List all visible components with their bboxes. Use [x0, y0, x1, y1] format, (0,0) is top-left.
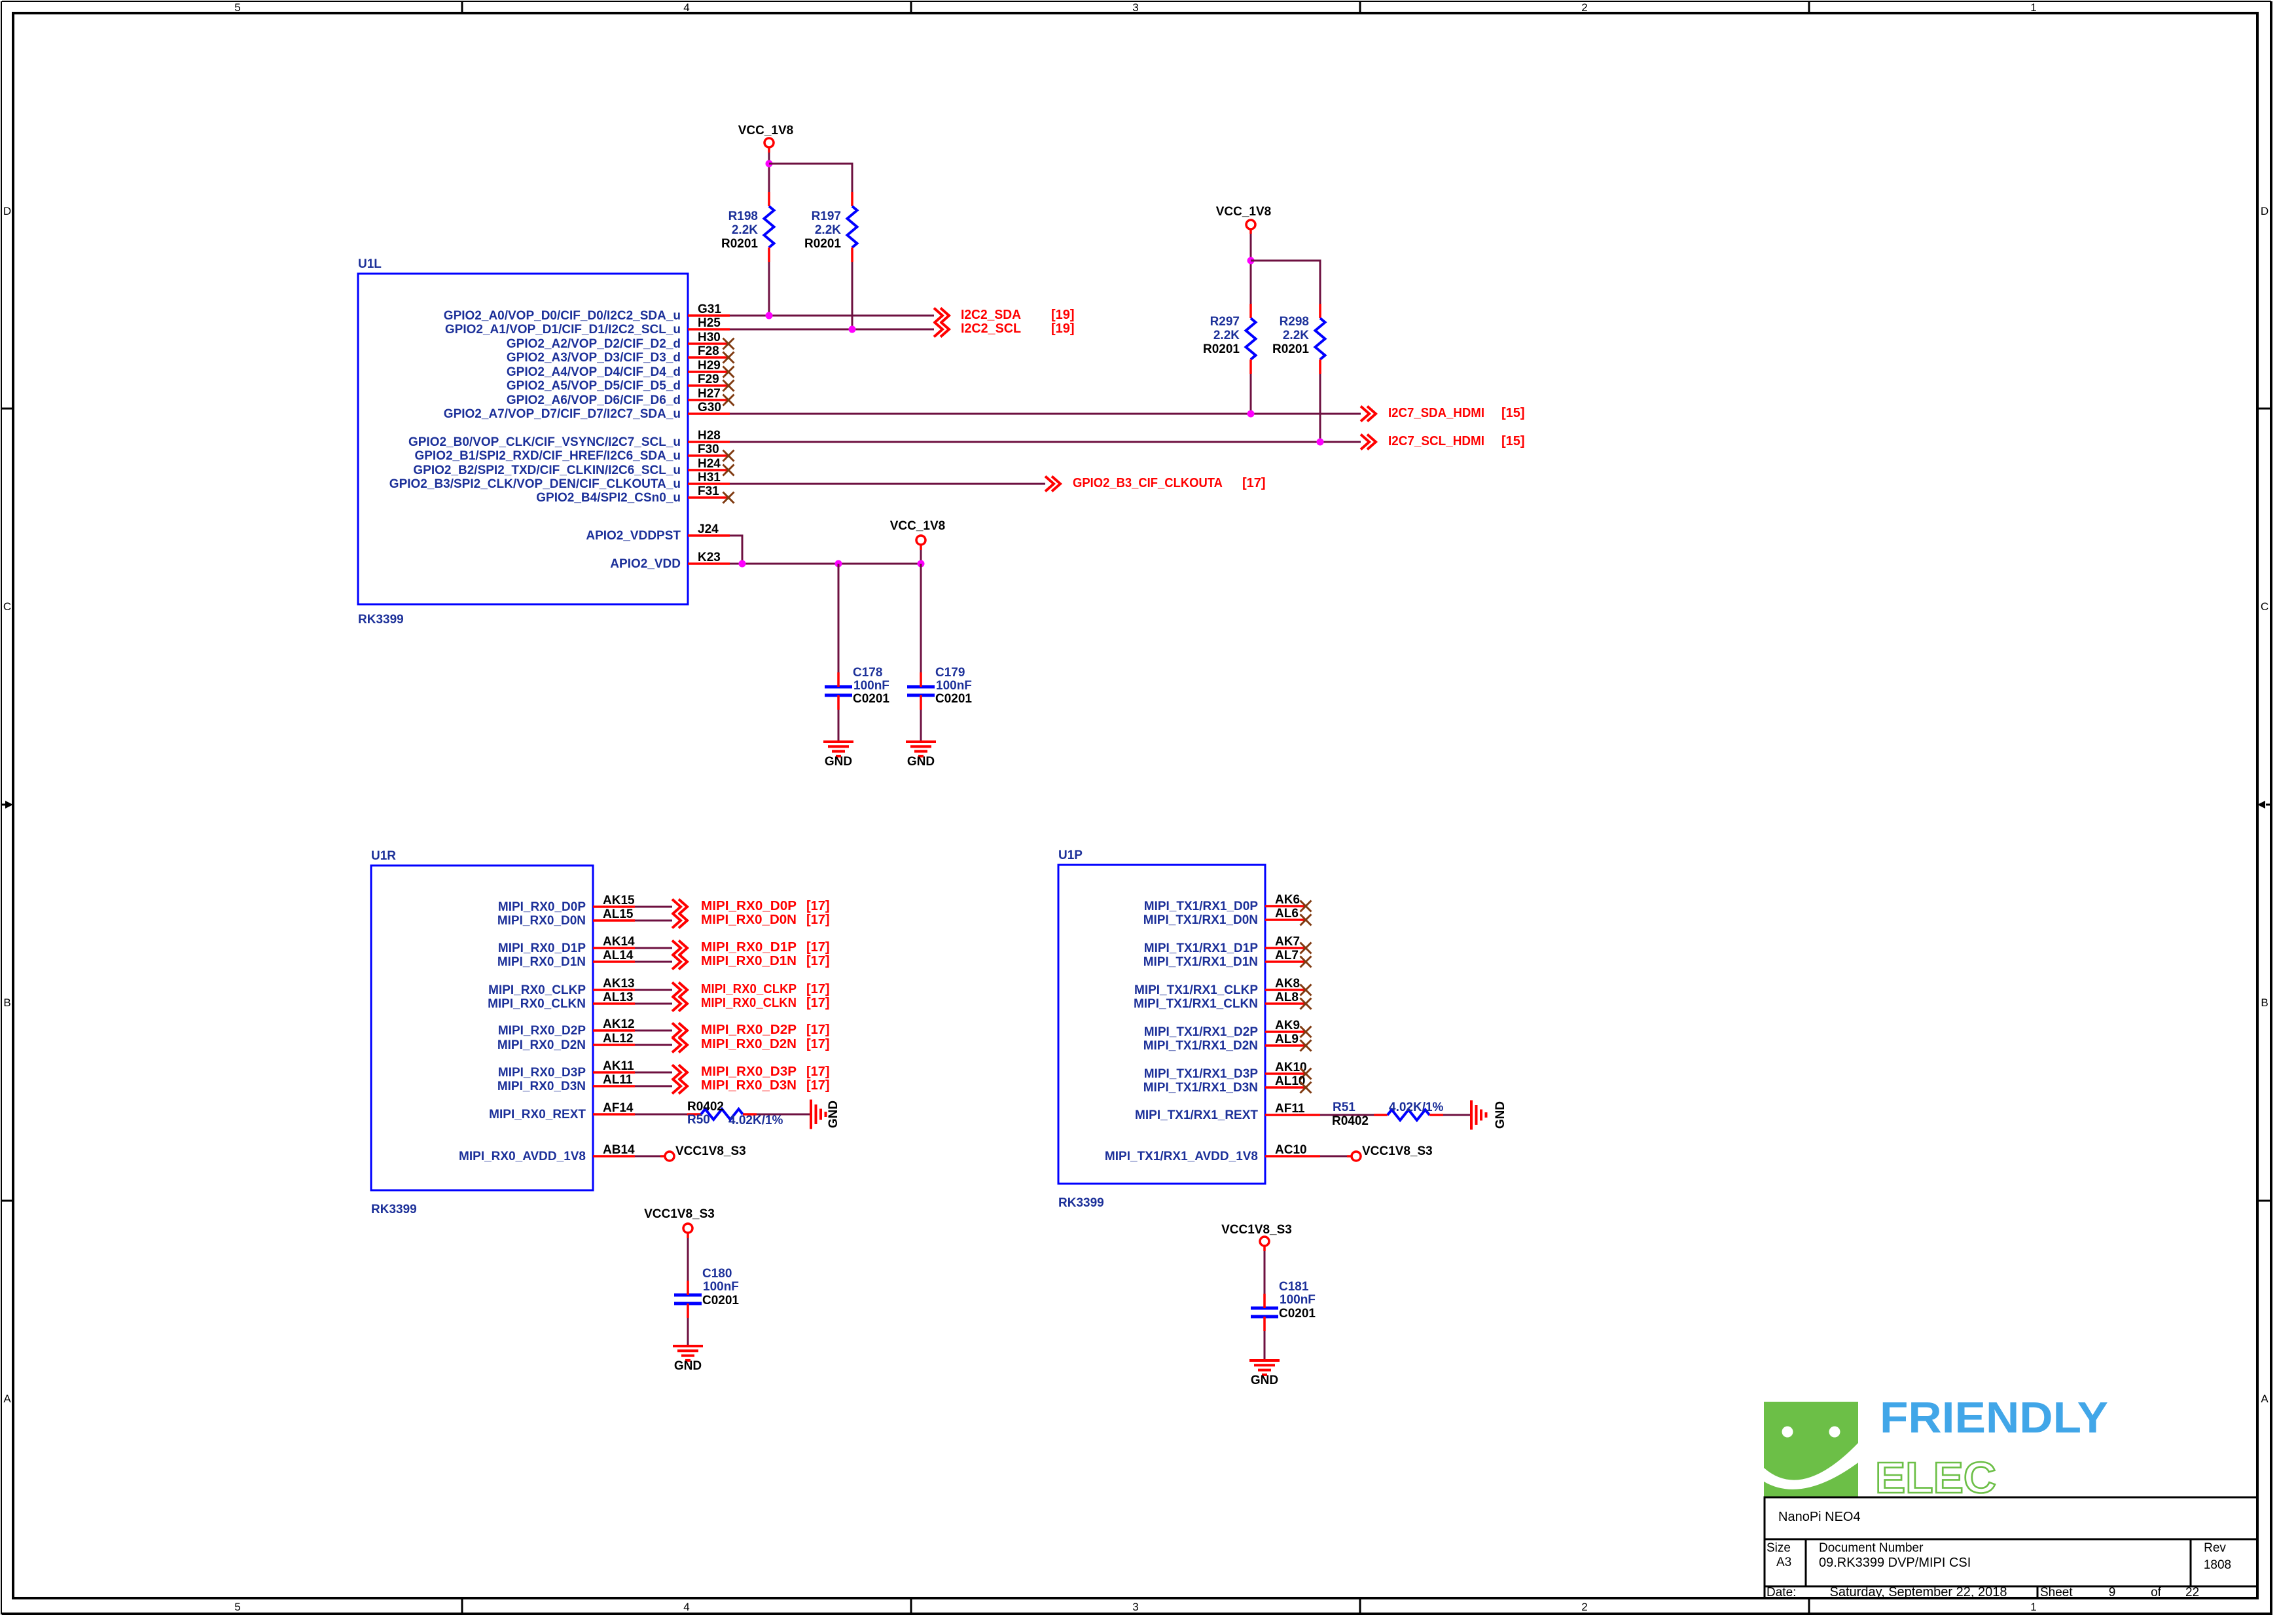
wire MIPI_RX0_D1P — [635, 947, 672, 949]
svg-text:GPIO2_B3/SPI2_CLK/VOP_DEN/CIF_: GPIO2_B3/SPI2_CLK/VOP_DEN/CIF_CLKOUTA_u — [389, 477, 681, 491]
svg-text:B: B — [3, 996, 10, 1009]
svg-text:J24: J24 — [698, 522, 719, 536]
svg-text:MIPI_RX0_D0N: MIPI_RX0_D0N — [497, 914, 586, 928]
svg-text:MIPI_TX1/RX1_CLKP: MIPI_TX1/RX1_CLKP — [1134, 983, 1258, 997]
svg-text:A3: A3 — [1776, 1556, 1791, 1569]
svg-text:ELEC: ELEC — [1875, 1453, 1996, 1503]
off-page connector MIPI_RX0_D3N [17] — [672, 1078, 830, 1094]
svg-text:R0402: R0402 — [1332, 1114, 1369, 1128]
pin H31 GPIO2_B3/SPI2_CLK/VOP_DEN/CIF_CLKOUTA_u — [389, 471, 730, 491]
off-page connector MIPI_RX0_D0N [17] — [672, 913, 830, 928]
pin H25 GPIO2_A1/VOP_D1/CIF_D1/I2C2_SCL_u — [445, 316, 730, 337]
wire R297 to I2C7_SDA — [1250, 374, 1252, 414]
svg-text:GND: GND — [674, 1359, 702, 1373]
pin AK14 MIPI_RX0_D1P — [498, 935, 635, 955]
wire I2C7_SDA — [730, 413, 1361, 415]
off-page connector I2C2_SCL [19] — [934, 321, 1075, 337]
off-page connector MIPI_RX0_D1N [17] — [672, 954, 830, 970]
logo text ELEC — [1875, 1453, 1996, 1503]
wire C181 to GND — [1264, 1331, 1266, 1359]
svg-text:5: 5 — [234, 1601, 240, 1613]
svg-text:C0201: C0201 — [853, 692, 889, 706]
title Date row — [1767, 1585, 2199, 1599]
svg-text:2.2K: 2.2K — [1213, 329, 1240, 342]
ground at R51 — [1471, 1101, 1507, 1130]
pin AK6 MIPI_TX1/RX1_D0P — [1144, 893, 1312, 913]
svg-text:2.2K: 2.2K — [732, 223, 758, 237]
svg-text:R0201: R0201 — [804, 237, 841, 251]
svg-text:GPIO2_A3/VOP_D3/CIF_D3_d: GPIO2_A3/VOP_D3/CIF_D3_d — [507, 351, 681, 365]
svg-text:2: 2 — [1581, 1601, 1587, 1613]
wire VCC1V8_S3 to C180 — [687, 1238, 689, 1281]
zone letters right — [2261, 205, 2269, 1405]
pin AL6 MIPI_TX1/RX1_D0N — [1143, 907, 1312, 927]
IC U1P RK3399 MIPI_TX1/RX1 bank — [1058, 848, 1265, 1210]
junction APIO2_VDD / VDDPST — [739, 560, 746, 568]
ground under C180 — [673, 1346, 703, 1373]
IC U1L RK3399 GPIO2 bank — [358, 257, 688, 627]
pin AL12 MIPI_RX0_D2N — [497, 1032, 635, 1052]
pin AC10 MIPI_TX1/RX1_AVDD_1V8 — [1105, 1143, 1320, 1163]
svg-text:R197: R197 — [812, 210, 841, 223]
svg-text:4.02K/1%: 4.02K/1% — [1389, 1101, 1444, 1114]
svg-text:GPIO2_B0/VOP_CLK/CIF_VSYNC/I2C: GPIO2_B0/VOP_CLK/CIF_VSYNC/I2C7_SCL_u — [408, 435, 681, 449]
svg-text:Sheet: Sheet — [2040, 1586, 2073, 1599]
pin F28 GPIO2_A3/VOP_D3/CIF_D3_d — [507, 344, 734, 365]
off-page connector MIPI_RX0_D1P [17] — [672, 940, 830, 956]
resistor R198 2.2K R0201 — [721, 192, 774, 262]
svg-text:H28: H28 — [698, 429, 721, 443]
svg-text:VCC_1V8: VCC_1V8 — [738, 124, 794, 137]
svg-text:C178: C178 — [853, 666, 882, 680]
svg-text:1808: 1808 — [2204, 1558, 2231, 1572]
svg-text:MIPI_TX1/RX1_D0P: MIPI_TX1/RX1_D0P — [1144, 900, 1259, 913]
svg-text:F30: F30 — [698, 443, 719, 456]
title block grid — [1765, 1497, 2257, 1598]
pin AL11 MIPI_RX0_D3N — [497, 1073, 635, 1093]
svg-text:[15]: [15] — [1501, 434, 1525, 448]
svg-text:GND: GND — [827, 1101, 840, 1128]
svg-text:F28: F28 — [698, 344, 719, 358]
svg-text:Date:: Date: — [1767, 1586, 1796, 1599]
svg-text:100nF: 100nF — [1280, 1293, 1316, 1307]
svg-text:VCC1V8_S3: VCC1V8_S3 — [1362, 1144, 1433, 1158]
svg-text:MIPI_TX1/RX1_CLKN: MIPI_TX1/RX1_CLKN — [1134, 997, 1258, 1011]
svg-text:AF11: AF11 — [1275, 1102, 1305, 1116]
svg-text:D: D — [3, 205, 11, 217]
svg-text:GND: GND — [907, 755, 935, 769]
svg-text:U1P: U1P — [1058, 848, 1083, 862]
svg-text:GPIO2_A1/VOP_D1/CIF_D1/I2C2_SC: GPIO2_A1/VOP_D1/CIF_D1/I2C2_SCL_u — [445, 323, 681, 337]
title Size A3 — [1767, 1541, 1791, 1569]
wire GPIO2_B3_CIF_CLKOUTA — [730, 483, 1045, 485]
svg-text:[17]: [17] — [806, 982, 830, 996]
junction R298 on I2C7_SCL — [1317, 439, 1324, 446]
svg-text:NanoPi NEO4: NanoPi NEO4 — [1778, 1510, 1861, 1524]
wire I2C7_SCL — [730, 441, 1361, 443]
wire MIPI_RX0_CLKP — [635, 989, 672, 991]
power VCC1V8_S3 at AB14 — [665, 1144, 746, 1161]
svg-text:MIPI_RX0_CLKN: MIPI_RX0_CLKN — [488, 997, 586, 1011]
svg-text:3: 3 — [1132, 1, 1138, 14]
junction R297 on I2C7_SDA — [1247, 410, 1255, 418]
svg-text:MIPI_RX0_D1N: MIPI_RX0_D1N — [497, 955, 586, 969]
wire APIO2_VDD to VCC_1V8 rail — [730, 563, 921, 565]
wire MIPI_RX0_D3P — [635, 1072, 672, 1074]
svg-text:H24: H24 — [698, 457, 721, 471]
ground under C178 — [823, 742, 853, 769]
zone ticks left — [1, 409, 13, 1201]
wire R197 to I2C2_SCL — [852, 262, 853, 329]
wire MIPI_RX0_D1N — [635, 961, 672, 963]
svg-text:RK3399: RK3399 — [371, 1203, 417, 1216]
title NanoPi NEO4 — [1778, 1510, 1861, 1524]
power VCC_1V8 (pull-ups R297/R298) — [1216, 205, 1272, 234]
svg-text:GPIO2_B2/SPI2_TXD/CIF_CLKIN/I2: GPIO2_B2/SPI2_TXD/CIF_CLKIN/I2C6_SCL_u — [413, 464, 681, 477]
svg-text:[17]: [17] — [806, 1037, 830, 1051]
logo text FRIENDLY — [1880, 1393, 2108, 1442]
capacitor C180 100nF C0201 — [674, 1267, 739, 1318]
wire VCC_1V8 to R198 — [768, 153, 770, 192]
svg-text:MIPI_RX0_REXT: MIPI_RX0_REXT — [489, 1108, 586, 1122]
svg-text:AK12: AK12 — [603, 1017, 635, 1031]
svg-text:AL9: AL9 — [1275, 1032, 1299, 1046]
svg-text:MIPI_RX0_D1P: MIPI_RX0_D1P — [498, 941, 586, 955]
off-page connector MIPI_RX0_D3P [17] — [672, 1065, 830, 1080]
svg-text:MIPI_RX0_D0P: MIPI_RX0_D0P — [701, 899, 797, 913]
svg-text:AB14: AB14 — [603, 1143, 635, 1157]
pin AK13 MIPI_RX0_CLKP — [488, 977, 635, 997]
resistor R50 4.02K/1% R0402 — [687, 1100, 783, 1127]
svg-text:F29: F29 — [698, 373, 719, 386]
svg-text:RK3399: RK3399 — [358, 613, 404, 627]
wire rail to C179 — [920, 564, 922, 672]
resistor R51 4.02K/1% R0402 — [1332, 1101, 1444, 1128]
svg-text:FRIENDLY: FRIENDLY — [1880, 1393, 2108, 1442]
pin AL7 MIPI_TX1/RX1_D1N — [1143, 949, 1312, 969]
svg-text:AK9: AK9 — [1275, 1019, 1300, 1032]
svg-text:Document Number: Document Number — [1819, 1541, 1924, 1555]
svg-text:AF14: AF14 — [603, 1101, 634, 1115]
svg-text:H27: H27 — [698, 387, 721, 401]
svg-text:AK13: AK13 — [603, 977, 635, 991]
svg-text:AL14: AL14 — [603, 949, 634, 962]
pin AL9 MIPI_TX1/RX1_D2N — [1143, 1032, 1312, 1053]
pin AL8 MIPI_TX1/RX1_CLKN — [1134, 991, 1312, 1011]
svg-text:[19]: [19] — [1051, 321, 1075, 336]
wire VCC_1V8 branch to R197 — [769, 164, 852, 192]
junction VCC_1V8 branch 2 — [1247, 257, 1255, 264]
svg-text:MIPI_RX0_D2P: MIPI_RX0_D2P — [701, 1023, 797, 1037]
pin AL13 MIPI_RX0_CLKN — [488, 991, 635, 1011]
pin H30 GPIO2_A2/VOP_D2/CIF_D2_d — [507, 331, 734, 351]
svg-text:C180: C180 — [702, 1267, 732, 1281]
svg-text:100nF: 100nF — [703, 1280, 739, 1294]
svg-text:1: 1 — [2030, 1601, 2036, 1613]
wire C178 to GND — [838, 710, 840, 740]
svg-text:GPIO2_A7/VOP_D7/CIF_D7/I2C7_SD: GPIO2_A7/VOP_D7/CIF_D7/I2C7_SDA_u — [444, 407, 681, 421]
junction VCC rail end — [918, 560, 925, 568]
svg-text:AK10: AK10 — [1275, 1061, 1307, 1074]
pin AB14 MIPI_RX0_AVDD_1V8 — [459, 1143, 635, 1163]
svg-text:[15]: [15] — [1501, 406, 1525, 420]
wire C180 to GND — [687, 1318, 689, 1345]
svg-text:AK15: AK15 — [603, 894, 635, 907]
svg-text:AL6: AL6 — [1275, 907, 1299, 921]
svg-text:MIPI_RX0_D3N: MIPI_RX0_D3N — [701, 1078, 797, 1093]
capacitor C178 100nF C0201 — [825, 666, 889, 710]
svg-text:D: D — [2261, 205, 2269, 217]
svg-text:MIPI_RX0_D1N: MIPI_RX0_D1N — [701, 954, 797, 968]
off-page connector I2C7_SDA_HDMI [15] — [1361, 406, 1525, 422]
svg-text:[17]: [17] — [806, 1078, 830, 1093]
svg-text:MIPI_TX1/RX1_AVDD_1V8: MIPI_TX1/RX1_AVDD_1V8 — [1105, 1150, 1258, 1163]
svg-text:MIPI_RX0_D0N: MIPI_RX0_D0N — [701, 913, 797, 927]
svg-text:C179: C179 — [935, 666, 965, 680]
svg-text:100nF: 100nF — [853, 679, 889, 693]
svg-text:GPIO2_B1/SPI2_RXD/CIF_HREF/I2C: GPIO2_B1/SPI2_RXD/CIF_HREF/I2C6_SDA_u — [414, 449, 681, 463]
svg-text:I2C7_SDA_HDMI: I2C7_SDA_HDMI — [1388, 406, 1484, 420]
svg-text:of: of — [2151, 1586, 2162, 1599]
wire I2C2_SCL — [730, 329, 934, 331]
svg-text:[17]: [17] — [806, 1065, 830, 1079]
svg-text:AL8: AL8 — [1275, 991, 1299, 1004]
svg-text:GPIO2_A5/VOP_D5/CIF_D5_d: GPIO2_A5/VOP_D5/CIF_D5_d — [507, 379, 681, 393]
svg-text:G30: G30 — [698, 401, 721, 414]
pin AL14 MIPI_RX0_D1N — [497, 949, 635, 969]
ground under C179 — [906, 742, 936, 769]
zone numbers bottom — [234, 1601, 2036, 1613]
wire VCC1V8_S3 to C181 — [1264, 1251, 1266, 1294]
wire rail to C178 — [838, 564, 840, 672]
svg-text:R50: R50 — [687, 1113, 710, 1127]
svg-text:AC10: AC10 — [1275, 1143, 1307, 1157]
svg-text:GPIO2_A4/VOP_D4/CIF_D4_d: GPIO2_A4/VOP_D4/CIF_D4_d — [507, 365, 681, 379]
pin H27 GPIO2_A6/VOP_D6/CIF_D6_d — [507, 387, 734, 407]
svg-text:MIPI_RX0_D0P: MIPI_RX0_D0P — [498, 900, 586, 914]
zone ticks bottom — [462, 1598, 1809, 1614]
svg-text:[17]: [17] — [806, 940, 830, 955]
svg-text:GND: GND — [825, 755, 852, 769]
ground at R50 — [811, 1100, 840, 1129]
svg-text:1: 1 — [2030, 1, 2036, 14]
svg-text:APIO2_VDDPST: APIO2_VDDPST — [586, 529, 681, 543]
pin F30 GPIO2_B1/SPI2_RXD/CIF_HREF/I2C6_SDA_u — [414, 443, 734, 463]
svg-text:U1R: U1R — [371, 849, 396, 863]
svg-text:C: C — [3, 600, 11, 613]
svg-text:R0402: R0402 — [687, 1100, 724, 1114]
svg-text:[17]: [17] — [806, 913, 830, 927]
svg-text:A: A — [2261, 1393, 2269, 1405]
svg-text:MIPI_RX0_D2N: MIPI_RX0_D2N — [497, 1038, 586, 1052]
svg-text:AK6: AK6 — [1275, 893, 1300, 907]
svg-text:MIPI_TX1/RX1_D1P: MIPI_TX1/RX1_D1P — [1144, 941, 1259, 955]
svg-text:2.2K: 2.2K — [815, 223, 841, 237]
junction VCC_1V8 branch — [766, 160, 773, 168]
zone numbers top — [234, 1, 2036, 14]
svg-text:VCC_1V8: VCC_1V8 — [890, 519, 946, 533]
pin AK9 MIPI_TX1/RX1_D2P — [1144, 1019, 1312, 1039]
wire MIPI_RX0_D0P — [635, 906, 672, 908]
wire MIPI_TX1/RX1_REXT to R51 — [1320, 1114, 1374, 1116]
svg-text:C0201: C0201 — [702, 1294, 739, 1307]
svg-text:C0201: C0201 — [1279, 1307, 1316, 1321]
svg-text:GPIO2_A6/VOP_D6/CIF_D6_d: GPIO2_A6/VOP_D6/CIF_D6_d — [507, 393, 681, 407]
pin AK8 MIPI_TX1/RX1_CLKP — [1134, 977, 1312, 997]
svg-text:4: 4 — [683, 1601, 689, 1613]
svg-text:Size: Size — [1767, 1541, 1791, 1555]
pin K23 APIO2_VDD — [610, 551, 730, 571]
svg-text:GND: GND — [1494, 1101, 1507, 1129]
svg-text:C181: C181 — [1279, 1280, 1309, 1294]
svg-text:U1L: U1L — [358, 257, 382, 271]
off-page connector MIPI_RX0_D2P [17] — [672, 1023, 830, 1038]
zone ticks right — [2257, 409, 2271, 1201]
pin H24 GPIO2_B2/SPI2_TXD/CIF_CLKIN/I2C6_SCL_u — [413, 457, 734, 477]
svg-text:MIPI_TX1/RX1_D1N: MIPI_TX1/RX1_D1N — [1143, 955, 1258, 969]
svg-text:[17]: [17] — [806, 954, 830, 968]
svg-text:R198: R198 — [728, 210, 758, 223]
FriendlyELEC logo mark — [1764, 1402, 1858, 1498]
pin F29 GPIO2_A5/VOP_D5/CIF_D5_d — [507, 373, 734, 393]
svg-text:[17]: [17] — [806, 1023, 830, 1037]
svg-text:H29: H29 — [698, 359, 721, 373]
svg-text:AL12: AL12 — [603, 1032, 633, 1046]
svg-text:MIPI_RX0_D2P: MIPI_RX0_D2P — [498, 1024, 586, 1038]
svg-text:MIPI_RX0_D3P: MIPI_RX0_D3P — [498, 1066, 586, 1080]
svg-text:I2C7_SCL_HDMI: I2C7_SCL_HDMI — [1388, 434, 1484, 448]
svg-text:MIPI_RX0_D2N: MIPI_RX0_D2N — [701, 1037, 797, 1051]
svg-text:B: B — [2261, 996, 2268, 1009]
svg-text:4.02K/1%: 4.02K/1% — [728, 1114, 783, 1127]
capacitor C181 100nF C0201 — [1251, 1280, 1316, 1331]
svg-text:G31: G31 — [698, 302, 721, 316]
svg-text:MIPI_TX1/RX1_D2N: MIPI_TX1/RX1_D2N — [1143, 1039, 1258, 1053]
svg-text:GPIO2_B4/SPI2_CSn0_u: GPIO2_B4/SPI2_CSn0_u — [536, 491, 681, 505]
svg-text:H31: H31 — [698, 471, 721, 484]
resistor R297 2.2K R0201 — [1203, 304, 1256, 374]
junction R198 on I2C2_SDA — [766, 312, 773, 319]
svg-text:MIPI_RX0_CLKP: MIPI_RX0_CLKP — [701, 982, 797, 996]
svg-text:100nF: 100nF — [936, 679, 972, 693]
wire I2C2_SDA — [730, 315, 934, 317]
svg-text:A: A — [3, 1393, 11, 1405]
svg-text:VCC1V8_S3: VCC1V8_S3 — [675, 1144, 746, 1158]
svg-text:3: 3 — [1132, 1601, 1138, 1613]
wire MIPI_RX0_D2P — [635, 1030, 672, 1032]
svg-text:[17]: [17] — [806, 899, 830, 913]
svg-text:GPIO2_A0/VOP_D0/CIF_D0/I2C2_SD: GPIO2_A0/VOP_D0/CIF_D0/I2C2_SDA_u — [444, 309, 681, 323]
svg-text:RK3399: RK3399 — [1058, 1196, 1104, 1210]
svg-text:4: 4 — [683, 1, 689, 14]
svg-text:AK14: AK14 — [603, 935, 635, 949]
svg-text:C: C — [2261, 600, 2269, 613]
wire VCC_1V8 to R297 — [1250, 234, 1252, 304]
svg-text:GPIO2_B3_CIF_CLKOUTA: GPIO2_B3_CIF_CLKOUTA — [1073, 476, 1223, 490]
pin G31 GPIO2_A0/VOP_D0/CIF_D0/I2C2_SDA_u — [444, 302, 730, 323]
svg-text:GND: GND — [1251, 1374, 1278, 1387]
svg-text:MIPI_RX0_D1P: MIPI_RX0_D1P — [701, 940, 797, 955]
zone ticks top — [462, 1, 1809, 13]
wire MIPI_RX0_CLKN — [635, 1003, 672, 1005]
wire R51 to GND — [1443, 1114, 1470, 1116]
svg-text:K23: K23 — [698, 551, 721, 564]
svg-text:AL11: AL11 — [603, 1073, 633, 1087]
svg-text:GPIO2_A2/VOP_D2/CIF_D2_d: GPIO2_A2/VOP_D2/CIF_D2_d — [507, 337, 681, 351]
svg-text:AK8: AK8 — [1275, 977, 1300, 991]
svg-text:VCC1V8_S3: VCC1V8_S3 — [1221, 1223, 1292, 1237]
svg-text:2: 2 — [1581, 1, 1587, 14]
wire MIPI_RX0_REXT to R50 — [635, 1114, 687, 1116]
wire MIPI_TX1/RX1_AVDD_1V8 to VCC1V8_S3 — [1320, 1156, 1352, 1158]
svg-text:[17]: [17] — [806, 996, 830, 1010]
svg-text:VCC1V8_S3: VCC1V8_S3 — [644, 1207, 715, 1221]
title Document Number — [1819, 1541, 1971, 1570]
pin AK7 MIPI_TX1/RX1_D1P — [1144, 935, 1312, 955]
svg-text:R0201: R0201 — [1272, 342, 1309, 356]
IC U1R RK3399 MIPI_RX0 bank — [371, 849, 593, 1216]
svg-text:MIPI_TX1/RX1_D3N: MIPI_TX1/RX1_D3N — [1143, 1081, 1258, 1095]
svg-text:9: 9 — [2109, 1586, 2116, 1599]
pin F31 GPIO2_B4/SPI2_CSn0_u — [536, 484, 734, 505]
junction R197 on I2C2_SCL — [849, 326, 856, 333]
power VCC1V8_S3 at AC10 — [1352, 1144, 1433, 1161]
svg-text:AL7: AL7 — [1275, 949, 1299, 962]
wire R50 to GND — [757, 1114, 810, 1116]
svg-text:R297: R297 — [1210, 315, 1240, 329]
pin AK10 MIPI_TX1/RX1_D3P — [1144, 1061, 1312, 1081]
svg-text:VCC_1V8: VCC_1V8 — [1216, 205, 1272, 219]
svg-text:5: 5 — [234, 1, 240, 14]
pin H29 GPIO2_A4/VOP_D4/CIF_D4_d — [507, 359, 734, 379]
svg-text:C0201: C0201 — [935, 692, 972, 706]
svg-text:AL10: AL10 — [1275, 1074, 1305, 1088]
svg-text:AL13: AL13 — [603, 991, 633, 1004]
pin AF14 MIPI_RX0_REXT — [489, 1101, 635, 1122]
pin G30 GPIO2_A7/VOP_D7/CIF_D7/I2C7_SDA_u — [444, 401, 730, 421]
pin J24 APIO2_VDDPST — [586, 522, 730, 543]
svg-text:MIPI_TX1/RX1_D3P: MIPI_TX1/RX1_D3P — [1144, 1067, 1259, 1081]
svg-text:AK11: AK11 — [603, 1059, 634, 1073]
svg-text:MIPI_RX0_CLKN: MIPI_RX0_CLKN — [701, 996, 797, 1010]
wire MIPI_RX0_D2N — [635, 1044, 672, 1046]
wire MIPI_RX0_D3N — [635, 1085, 672, 1087]
svg-text:Rev: Rev — [2204, 1541, 2226, 1555]
svg-text:MIPI_TX1/RX1_D0N: MIPI_TX1/RX1_D0N — [1143, 913, 1258, 927]
pin AK15 MIPI_RX0_D0P — [498, 894, 635, 914]
pin H28 GPIO2_B0/VOP_CLK/CIF_VSYNC/I2C7_SCL_u — [408, 429, 730, 449]
wire MIPI_RX0_AVDD_1V8 to VCC1V8_S3 — [635, 1156, 665, 1158]
svg-text:MIPI_RX0_D3N: MIPI_RX0_D3N — [497, 1080, 586, 1093]
svg-text:[19]: [19] — [1051, 308, 1075, 322]
wire VCC_1V8 branch to R298 — [1251, 261, 1320, 304]
pin AF11 MIPI_TX1/RX1_REXT — [1135, 1102, 1320, 1122]
off-page connector I2C2_SDA [19] — [934, 308, 1075, 323]
off-page connector MIPI_RX0_CLKN [17] — [672, 996, 830, 1012]
svg-text:I2C2_SCL: I2C2_SCL — [961, 321, 1021, 336]
center arrow right — [2257, 801, 2271, 809]
zone letters left — [3, 205, 11, 1405]
svg-text:MIPI_RX0_D3P: MIPI_RX0_D3P — [701, 1065, 797, 1079]
svg-text:MIPI_RX0_AVDD_1V8: MIPI_RX0_AVDD_1V8 — [459, 1150, 586, 1163]
svg-text:R0201: R0201 — [1203, 342, 1240, 356]
svg-text:F31: F31 — [698, 484, 719, 498]
svg-text:2.2K: 2.2K — [1283, 329, 1309, 342]
resistor R298 2.2K R0201 — [1272, 304, 1325, 374]
capacitor C179 100nF C0201 — [907, 666, 972, 710]
svg-text:APIO2_VDD: APIO2_VDD — [610, 557, 681, 571]
svg-text:R0201: R0201 — [721, 237, 758, 251]
